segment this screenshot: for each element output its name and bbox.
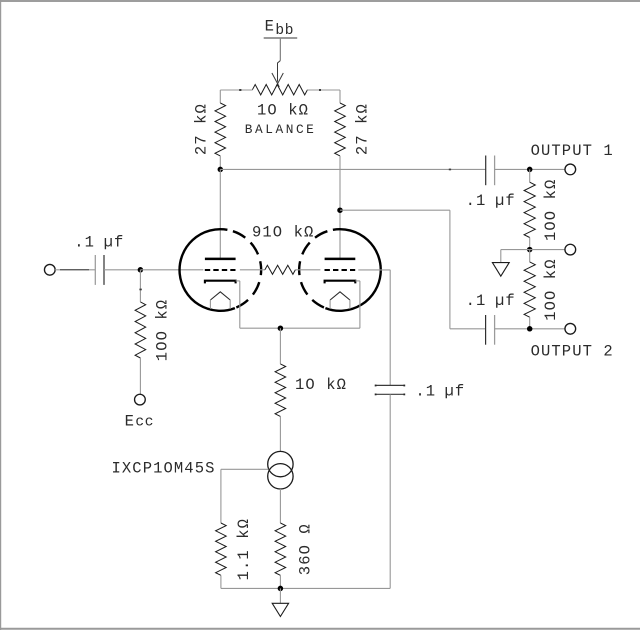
wire grid V2 down to C4 (389, 270, 391, 386)
svg-text:E: E (265, 18, 274, 36)
wire R5 to grid V2 (295, 269, 320, 271)
svg-text:27 kΩ: 27 kΩ (193, 103, 211, 155)
resistor R5 910 kOhm body (265, 265, 296, 274)
triode V2 cathode (325, 281, 356, 284)
svg-text:1O kΩ: 1O kΩ (295, 376, 347, 394)
label U1 IXCP10M45S (112, 460, 216, 478)
triode V1 envelope dashed arc (227, 230, 261, 308)
ground symbol bottom (272, 603, 288, 616)
wire gate down to R7 (220, 469, 222, 523)
terminal OUTPUT 1 (565, 164, 576, 175)
resistor R7 1.1 kOhm body (216, 523, 227, 575)
wire grid V1 to R5 (240, 269, 265, 271)
svg-text:cc: cc (135, 414, 154, 430)
node ground junction dot (278, 586, 284, 592)
wire plate V1 drop (219, 169, 221, 259)
svg-text:1OO kΩ: 1OO kΩ (542, 258, 560, 320)
node OUTPUT 2 junction dot (527, 326, 533, 332)
svg-text:1O kΩ: 1O kΩ (257, 101, 309, 119)
label C2 .1 &#181;f (466, 192, 516, 210)
wire grid V2 right (358, 269, 390, 271)
svg-text:µf: µf (104, 233, 125, 251)
svg-text:BALANCE: BALANCE (245, 122, 317, 137)
svg-text:.1: .1 (74, 233, 95, 251)
terminal OUTPUT 2 (565, 323, 576, 334)
wire ground bus (221, 587, 390, 589)
ground symbol right (492, 263, 509, 277)
label R5 910 k&#937; (252, 223, 314, 241)
svg-text:E: E (125, 412, 134, 430)
triode V2 envelope dashed arc (299, 230, 333, 308)
resistor R6 10 kOhm body (275, 364, 286, 417)
wire C3 to OUTPUT 2 (495, 328, 565, 330)
label R3 27 k&#937; (354, 103, 372, 155)
label C3 .1 &#181;f (466, 292, 516, 310)
wire C1 to grid node (104, 269, 140, 271)
border frame left (0, 0, 2, 630)
node plate V1 junction dot (218, 167, 224, 173)
svg-text:.1: .1 (415, 382, 436, 400)
svg-text:.1: .1 (466, 192, 487, 210)
wire top rail to R2 (219, 90, 221, 103)
resistor R8 360 Ohm body (275, 523, 286, 575)
wire pot left lead (220, 89, 252, 91)
wire R3 to plate V2 (339, 156, 341, 259)
wire R10 to OUTPUT 2 node (529, 317, 531, 329)
input terminal (44, 264, 55, 275)
wire plate V2 right (340, 209, 450, 211)
capacitor C3 .1 uf (486, 315, 495, 345)
svg-text:µf: µf (495, 192, 516, 210)
resistor R4 100 kOhm body (135, 302, 146, 358)
wire R8 to ground bus (279, 575, 281, 588)
label R1 BALANCE (245, 122, 317, 137)
current source U1 circle A (268, 451, 293, 476)
label R9 100 k&#937; (542, 179, 560, 241)
triode V1 heater legs (210, 300, 230, 309)
label R2 27 k&#937; (193, 103, 211, 155)
wire U1 bottom (279, 489, 281, 523)
power rail bar Ebb (264, 37, 298, 39)
node cathode junction dot (278, 325, 284, 331)
wire pot right lead (307, 89, 340, 91)
wire cathode bus (240, 327, 360, 329)
current source U1 circle B (268, 464, 293, 489)
label C4 .1 &#181;f (415, 382, 465, 400)
svg-text:.1: .1 (466, 292, 487, 310)
border frame top (0, 0, 640, 2)
wire mid node to terminal (530, 249, 565, 251)
label C1 .1 &#181;f (74, 233, 124, 251)
wire down right of tubes (449, 210, 451, 329)
triode V2 envelope solid arc (325, 229, 380, 311)
resistor R3 27 kOhm body (335, 103, 346, 156)
svg-text:1.1 kΩ: 1.1 kΩ (235, 518, 253, 580)
triode V1 grid (205, 269, 236, 271)
svg-text:bb: bb (275, 23, 294, 39)
svg-text:µf: µf (495, 292, 516, 310)
label R8 360 &#937; (296, 523, 314, 575)
label R4 100 k&#937; (153, 299, 171, 361)
wire R4 to Ecc terminal (139, 358, 141, 394)
wire grid node down (139, 270, 141, 302)
wire ground stub (279, 588, 281, 603)
triode V1 cathode (205, 281, 236, 284)
wire cathode node down (279, 328, 281, 364)
svg-text:36O Ω: 36O Ω (296, 523, 314, 575)
svg-text:1OO kΩ: 1OO kΩ (153, 299, 171, 361)
wire to C3 (450, 328, 486, 330)
triode V1 plate (205, 258, 236, 261)
svg-text:OUTPUT 2: OUTPUT 2 (531, 343, 614, 361)
wire node to R9 (529, 169, 531, 182)
wire cathode V1 down (239, 281, 241, 328)
wire R9 to mid node (529, 238, 531, 250)
node plate V2 junction dot (337, 207, 343, 213)
node grid V1 junction dot (138, 267, 144, 273)
resistor R2 27 kOhm body (215, 103, 226, 156)
border frame bottom (0, 628, 640, 630)
label R7 1.1 k&#937; (235, 518, 253, 580)
wire ground stub right (500, 250, 502, 263)
wire C2 to OUTPUT 1 (495, 168, 565, 170)
wire Ebb to wiper (279, 39, 281, 61)
wire cathode V1 step (236, 280, 240, 282)
wire R6 to current source (279, 416, 281, 451)
triode V1 heater (210, 292, 230, 300)
potentiometer R1 wiper arrow (272, 61, 283, 87)
wire C4 down to ground bus (389, 394, 391, 588)
triode V2 grid (325, 269, 356, 271)
wire R2 to plate node (219, 156, 221, 170)
node OUTPUT 1 junction dot (527, 167, 533, 173)
label R6 10 k&#937; (295, 376, 347, 394)
wire R7 to ground bus (220, 575, 222, 588)
wire grid node to grid V1 (140, 269, 203, 271)
svg-text:OUTPUT 1: OUTPUT 1 (531, 142, 614, 160)
capacitor C2 .1 uf (486, 156, 495, 186)
wire cathode V2 down (359, 281, 361, 328)
label R1 value 10 k&#937; (257, 101, 309, 119)
potentiometer R1 10 kOhm body (252, 85, 307, 95)
resistor R10 100 kOhm body (524, 262, 535, 317)
terminal Ecc (135, 394, 146, 405)
power label Ebb (265, 18, 294, 39)
capacitor C1 .1 uf (95, 255, 104, 285)
pin end marker pot left (239, 89, 241, 91)
triode V2 plate (325, 258, 356, 261)
resistor R9 100 kOhm body (524, 182, 535, 237)
wire U1 gate left (221, 468, 269, 470)
label OUTPUT 1 (531, 142, 614, 160)
wire cathode V2 step (355, 280, 360, 282)
triode V1 envelope solid arc (180, 229, 235, 311)
wire top rail to R3 (339, 90, 341, 103)
wire mid node to ground (501, 249, 530, 251)
node mid junction dot (527, 247, 533, 253)
pin end marker pot right (319, 89, 321, 91)
terminal mid reference (565, 244, 576, 255)
svg-text:1OO kΩ: 1OO kΩ (542, 179, 560, 241)
svg-text:27 kΩ: 27 kΩ (354, 103, 372, 155)
wire plate V1 to C2 (220, 169, 485, 171)
capacitor C4 .1 uf bypass (375, 385, 405, 396)
label R10 100 k&#937; (542, 258, 560, 320)
svg-text:µf: µf (445, 382, 466, 400)
wire input to C1 (55, 269, 95, 271)
svg-text:91O kΩ: 91O kΩ (252, 223, 314, 241)
wire mid node to R10 (529, 250, 531, 262)
label OUTPUT 2 (531, 343, 614, 361)
triode V2 heater (330, 292, 350, 300)
triode V2 heater legs (330, 300, 350, 309)
svg-text:IXCP1OM45S: IXCP1OM45S (112, 460, 216, 478)
label Ecc (125, 412, 154, 430)
